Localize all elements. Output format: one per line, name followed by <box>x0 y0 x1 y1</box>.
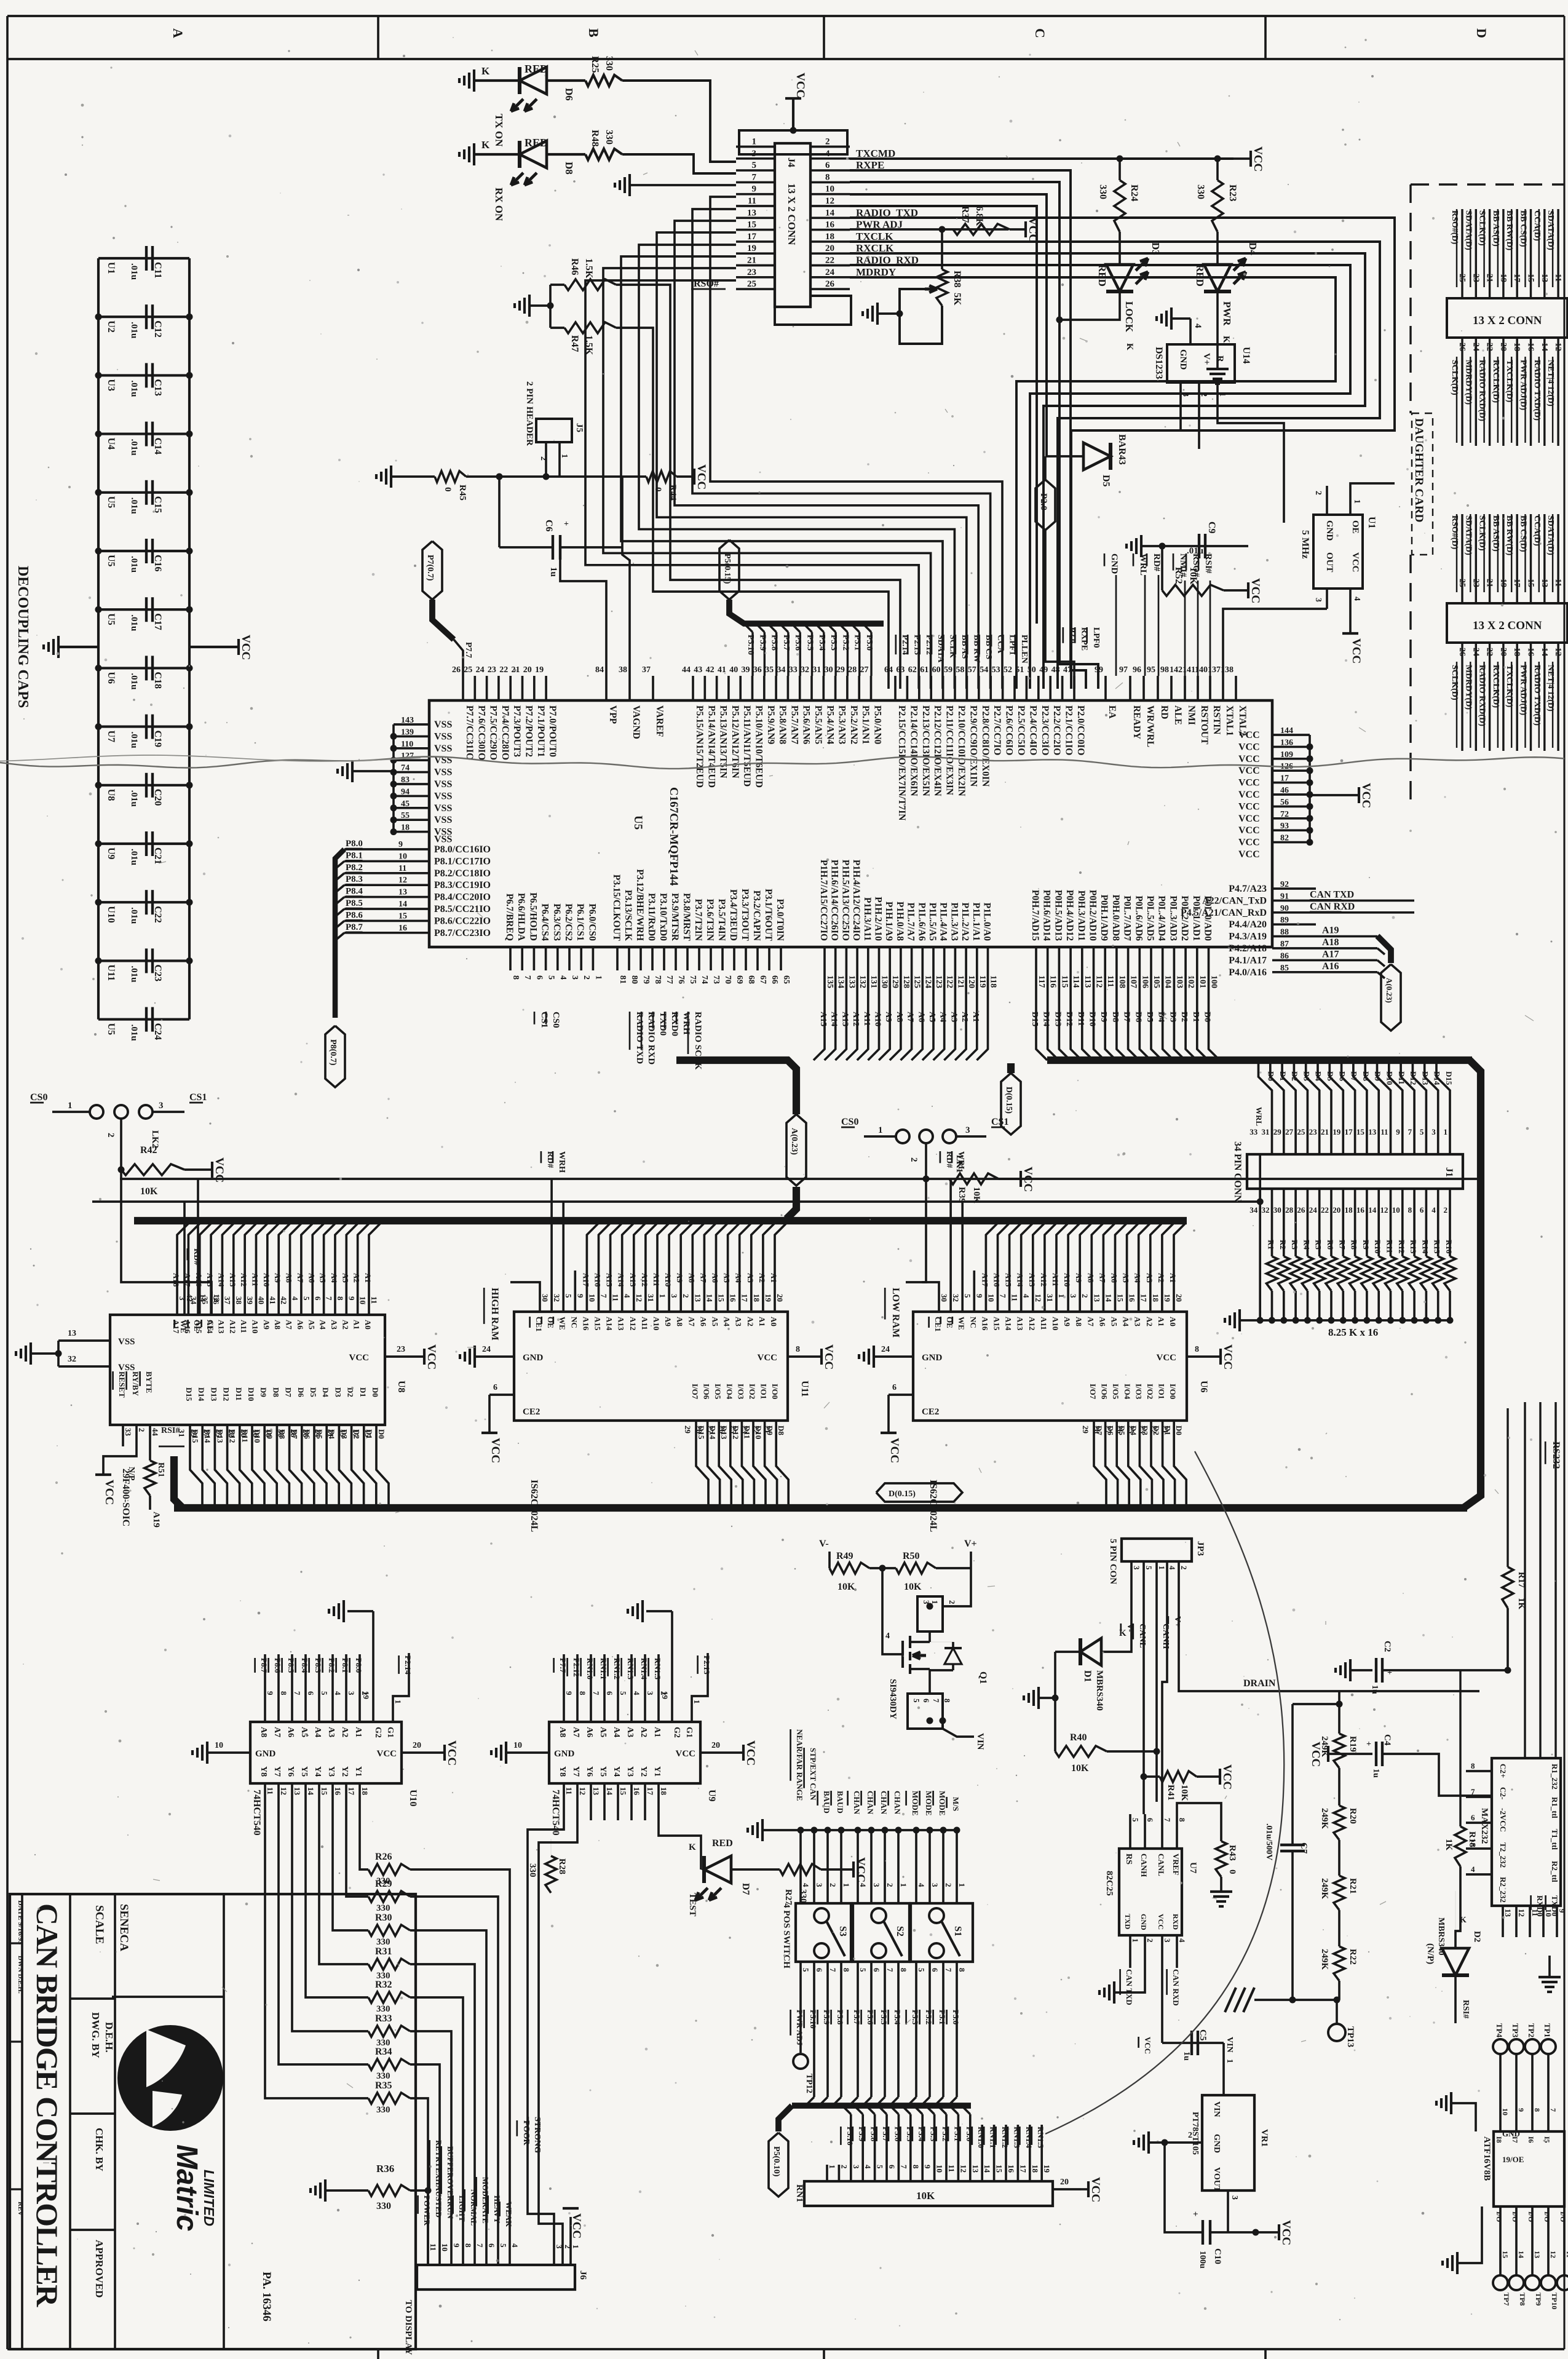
U9 output pin Y5 <box>603 1783 606 1820</box>
switch bottom pin P5.2 <box>929 1962 931 1992</box>
testpoint TP1 <box>1541 2039 1556 2054</box>
svg-text:TP2: TP2 <box>1527 2023 1536 2037</box>
svg-text:11: 11 <box>429 2243 438 2251</box>
svg-text:Q1: Q1 <box>978 1671 988 1684</box>
svg-text:A14: A14 <box>205 1320 215 1334</box>
svg-text:32: 32 <box>1262 1205 1270 1215</box>
svg-text:32: 32 <box>68 1355 76 1364</box>
U9 output pin Y8 <box>563 1783 565 1820</box>
U10 output pin Y1 <box>358 1783 361 1820</box>
svg-text:R32: R32 <box>375 1980 392 1990</box>
svg-text:1.5K: 1.5K <box>584 335 594 355</box>
svg-text:136: 136 <box>1280 738 1293 747</box>
svg-text:23: 23 <box>488 665 496 675</box>
svg-text:CHAN: CHAN <box>852 1791 861 1815</box>
svg-text:P4.0/A16: P4.0/A16 <box>1229 967 1267 978</box>
svg-text:1u: 1u <box>1371 1769 1380 1778</box>
svg-text:R8: R8 <box>1350 1240 1359 1250</box>
switch bottom pin P5.0 <box>956 1962 958 1992</box>
svg-text:R37: R37 <box>960 206 970 223</box>
svg-text:D2: D2 <box>1472 1931 1482 1942</box>
capacitor C23 <box>98 959 189 962</box>
svg-text:P8.2/CC18IO: P8.2/CC18IO <box>434 868 491 879</box>
connector J6 TO DISPLAY <box>417 2265 575 2290</box>
U9 input pin A6 <box>590 1654 592 1722</box>
svg-text:A12: A12 <box>228 1320 237 1333</box>
svg-text:.01u: .01u <box>129 439 139 456</box>
svg-text:20: 20 <box>1499 343 1508 351</box>
svg-text:D14: D14 <box>1042 1012 1051 1026</box>
svg-text:MDRDY: MDRDY <box>856 266 896 278</box>
svg-text:R29: R29 <box>375 1879 392 1889</box>
svg-text:249K: 249K <box>1320 1808 1329 1830</box>
svg-text:2: 2 <box>944 1883 953 1887</box>
svg-text:4: 4 <box>1193 323 1203 328</box>
svg-text:3: 3 <box>159 1101 164 1111</box>
svg-text:A12: A12 <box>1028 1317 1037 1330</box>
svg-text:1: 1 <box>1131 1938 1140 1943</box>
svg-text:R39: R39 <box>957 1187 967 1203</box>
svg-text:15: 15 <box>1116 1294 1125 1302</box>
wire CANL JP3 down <box>1142 1593 1145 1814</box>
JD2 pin col 21 <box>1489 514 1491 603</box>
svg-text:P5.13/AN13/T5IN: P5.13/AN13/T5IN <box>718 705 729 778</box>
svg-text:P3.9/MTSR: P3.9/MTSR <box>670 893 680 942</box>
svg-text:P8.2: P8.2 <box>327 1658 336 1673</box>
svg-text:U8: U8 <box>106 789 116 801</box>
JD1 pin col 16 <box>1530 338 1532 446</box>
wire P2.0 to CPU <box>1045 530 1074 689</box>
svg-text:108: 108 <box>1117 975 1127 988</box>
svg-text:D6: D6 <box>1133 1012 1142 1022</box>
svg-text:P5.8/AN8: P5.8/AN8 <box>777 705 788 745</box>
svg-text:C23: C23 <box>152 964 163 981</box>
wire V+ to Q1 source <box>943 1568 971 1606</box>
svg-text:5: 5 <box>1144 1566 1154 1570</box>
svg-text:.01u: .01u <box>129 732 139 748</box>
svg-text:33: 33 <box>1249 1127 1258 1136</box>
ground R38 <box>877 312 900 315</box>
svg-text:61: 61 <box>920 665 929 675</box>
svg-text:P2.8/CC8IO/EX0IN: P2.8/CC8IO/EX0IN <box>980 705 991 787</box>
U10 output pin Y6 <box>291 1783 293 1820</box>
svg-text:P2.3/CC3IO: P2.3/CC3IO <box>1040 705 1050 755</box>
power VCC R39 <box>999 1178 1021 1180</box>
svg-text:A7: A7 <box>285 1320 294 1330</box>
svg-text:22: 22 <box>1321 1205 1329 1215</box>
JD1 pin col 12 <box>1557 338 1559 446</box>
JD2 pin col 16 <box>1530 643 1532 751</box>
svg-text:18: 18 <box>1512 648 1521 656</box>
svg-text:VCC: VCC <box>489 1438 502 1463</box>
svg-text:112: 112 <box>1095 975 1104 988</box>
svg-text:BAUD: BAUD <box>822 1791 831 1814</box>
svg-text:4: 4 <box>801 1883 810 1887</box>
U6 IO pins and fan <box>1093 1421 1095 1451</box>
svg-text:10: 10 <box>935 2165 944 2173</box>
svg-text:VSS: VSS <box>434 720 452 730</box>
svg-text:18: 18 <box>1512 343 1521 351</box>
svg-text:15: 15 <box>995 2165 1004 2173</box>
svg-text:P6.6/HLDA: P6.6/HLDA <box>516 893 526 942</box>
svg-text:11: 11 <box>266 1787 275 1794</box>
svg-text:13: 13 <box>293 1787 302 1796</box>
svg-text:RADIO TXD(D): RADIO TXD(D) <box>1532 360 1542 421</box>
svg-text:1K: 1K <box>1444 1839 1454 1851</box>
svg-text:P1H.4/A12/CC24IO: P1H.4/A12/CC24IO <box>851 860 861 941</box>
svg-text:6: 6 <box>1471 1813 1475 1822</box>
svg-text:63: 63 <box>896 665 905 675</box>
svg-text:4 POS SWITCH: 4 POS SWITCH <box>782 1903 791 1968</box>
svg-text:3: 3 <box>815 1883 824 1887</box>
svg-text:GND: GND <box>1324 520 1334 541</box>
svg-text:31: 31 <box>1262 1127 1270 1136</box>
svg-text:4: 4 <box>623 1294 632 1298</box>
svg-text:26: 26 <box>1457 648 1467 656</box>
svg-text:10K: 10K <box>916 2190 935 2202</box>
svg-text:25: 25 <box>215 1429 224 1438</box>
svg-text:2: 2 <box>137 1428 146 1432</box>
svg-text:A15: A15 <box>194 1320 204 1334</box>
svg-text:10K: 10K <box>1179 1785 1189 1801</box>
svg-text:P0L.4/AD4: P0L.4/AD4 <box>1157 895 1167 941</box>
svg-text:A6: A6 <box>1110 1273 1119 1283</box>
svg-text:2: 2 <box>1444 1205 1448 1215</box>
svg-text:9: 9 <box>923 2165 932 2169</box>
svg-text:11: 11 <box>748 196 756 206</box>
svg-text:BB RW(D): BB RW(D) <box>1505 515 1514 556</box>
J4 pin 22 <box>810 264 850 267</box>
svg-text:D13: D13 <box>1053 1012 1062 1026</box>
svg-text:A1: A1 <box>1157 1317 1166 1326</box>
svg-text:25: 25 <box>1127 1425 1136 1434</box>
svg-text:GND: GND <box>255 1749 276 1759</box>
capacitor C22 <box>98 901 189 903</box>
svg-text:14: 14 <box>1368 1205 1377 1215</box>
svg-text:D14: D14 <box>197 1387 206 1402</box>
svg-text:P1L.6/A6: P1L.6/A6 <box>916 903 927 942</box>
svg-text:.01u: .01u <box>129 556 139 573</box>
svg-text:83: 83 <box>401 775 410 785</box>
RN1 wire pin 18 <box>1029 2125 1031 2181</box>
svg-text:P3.7/T2IN: P3.7/T2IN <box>693 899 703 941</box>
svg-text:P5.2: P5.2 <box>841 635 850 651</box>
svg-text:CE1: CE1 <box>933 1317 943 1332</box>
svg-text:S3: S3 <box>837 1926 848 1937</box>
J4 pin 26 <box>810 288 850 290</box>
svg-text:22: 22 <box>499 665 508 675</box>
svg-text:SCALE: SCALE <box>93 1905 106 1944</box>
svg-text:15: 15 <box>1526 579 1535 587</box>
svg-text:12: 12 <box>1034 1294 1043 1302</box>
wire VIN to VR1 <box>1222 2043 1225 2095</box>
svg-text:9: 9 <box>347 1296 356 1301</box>
power VCC TXCMD rail <box>1249 151 1252 167</box>
svg-text:330: 330 <box>604 56 614 71</box>
svg-text:26: 26 <box>825 279 835 289</box>
svg-text:RXD: RXD <box>1171 1914 1180 1930</box>
svg-text:23: 23 <box>747 268 756 277</box>
svg-text:DRAIN: DRAIN <box>1243 1678 1276 1689</box>
svg-text:A18: A18 <box>172 1273 181 1287</box>
svg-text:RADIO RXD(D): RADIO RXD(D) <box>1478 665 1487 726</box>
wire JP3 V- to D1 <box>1101 1593 1131 1652</box>
svg-text:LIMITED: LIMITED <box>201 2170 217 2226</box>
svg-text:A19: A19 <box>151 1512 161 1528</box>
svg-text:P5.3: P5.3 <box>829 635 838 651</box>
svg-text:18: 18 <box>825 232 834 242</box>
wire TXCLK <box>850 242 1380 689</box>
svg-text:6: 6 <box>306 1691 315 1695</box>
svg-text:A16: A16 <box>581 1317 590 1331</box>
svg-text:142: 142 <box>1170 665 1182 675</box>
svg-text:1: 1 <box>842 1883 851 1887</box>
svg-text:S2: S2 <box>895 1926 905 1937</box>
resistor R34 330 <box>279 1820 368 2064</box>
svg-text:C22: C22 <box>152 906 163 923</box>
svg-text:A13: A13 <box>840 1012 849 1026</box>
resistor R3 <box>1294 1189 1297 1256</box>
RN1 wire pin 10 <box>926 2106 935 2114</box>
wire U8 pin2 VCC <box>103 1446 137 1475</box>
U9 input pin A3 <box>630 1654 633 1722</box>
svg-text:A13: A13 <box>628 1273 638 1287</box>
svg-text:R24: R24 <box>1129 184 1139 202</box>
svg-text:5: 5 <box>917 1968 926 1972</box>
svg-text:P1H.0/A8: P1H.0/A8 <box>895 902 905 941</box>
IC U7 82C25 <box>1119 1849 1182 1935</box>
switch bottom pin P5.5 <box>884 1962 886 1992</box>
U9 output pin Y3 <box>630 1783 633 1820</box>
svg-text:5 MHz: 5 MHz <box>1300 530 1310 559</box>
svg-text:VCC: VCC <box>822 1344 835 1370</box>
svg-text:D2: D2 <box>1290 1071 1299 1081</box>
svg-text:94: 94 <box>401 787 410 796</box>
RN1 wire pin 1 <box>826 2165 828 2181</box>
svg-text:R20: R20 <box>1348 1808 1358 1824</box>
svg-text:R46: R46 <box>569 258 580 276</box>
svg-text:BAUD: BAUD <box>836 1791 845 1814</box>
svg-text:6: 6 <box>534 975 544 980</box>
svg-text:BB RW(D): BB RW(D) <box>1505 210 1514 251</box>
J1 pin column D1 <box>1270 1063 1284 1154</box>
svg-text:D4: D4 <box>1247 242 1259 255</box>
svg-text:P5.5/AN5: P5.5/AN5 <box>813 705 823 745</box>
svg-text:77: 77 <box>665 975 674 984</box>
ground ATF left <box>1450 2092 1452 2114</box>
svg-text:VCC: VCC <box>1221 1764 1233 1790</box>
svg-text:A8: A8 <box>895 1012 904 1022</box>
wire RADIO_RXD <box>850 265 1350 689</box>
svg-text:P8.3: P8.3 <box>346 874 363 884</box>
svg-text:K: K <box>689 1842 696 1852</box>
svg-text:A2: A2 <box>341 1320 350 1330</box>
svg-text:1: 1 <box>658 1294 667 1298</box>
svg-text:R33: R33 <box>375 2013 392 2024</box>
svg-text:8: 8 <box>1471 1761 1475 1770</box>
J4 pin 9 <box>736 193 775 196</box>
svg-text:VSS: VSS <box>434 803 452 814</box>
wire WRH horizontal <box>92 1200 1260 1203</box>
svg-text:3: 3 <box>1163 1938 1172 1943</box>
U9 output pin Y6 <box>590 1783 592 1820</box>
U5 control top pins <box>1104 676 1107 700</box>
svg-text:24: 24 <box>1471 648 1480 656</box>
svg-text:A7: A7 <box>1086 1317 1095 1326</box>
svg-text:25: 25 <box>747 279 756 289</box>
wire U7 VCC pin3 <box>1161 1963 1163 2043</box>
svg-text:P5.3/AN3: P5.3/AN3 <box>837 705 847 745</box>
svg-text:CANL: CANL <box>1157 1853 1166 1876</box>
svg-text:12: 12 <box>578 1787 587 1795</box>
MAX232 pins left <box>1466 1770 1492 1772</box>
net DRAIN wire <box>1179 1593 1479 1691</box>
svg-text:P0H.3/AD11: P0H.3/AD11 <box>1076 890 1087 941</box>
svg-text:29: 29 <box>1081 1425 1090 1434</box>
svg-text:A13: A13 <box>617 1317 626 1331</box>
U5 VPP VAGND VAREF pins <box>605 676 608 700</box>
svg-text:25: 25 <box>1457 579 1467 587</box>
wire POOR <box>528 1820 564 2265</box>
svg-text:5: 5 <box>1420 1127 1424 1136</box>
svg-text:12: 12 <box>825 196 834 206</box>
svg-text:A0: A0 <box>769 1317 778 1326</box>
svg-text:P0L.0/AD0: P0L.0/AD0 <box>1203 895 1213 941</box>
svg-text:23: 23 <box>1471 274 1480 282</box>
svg-text:P2.14: P2.14 <box>403 1655 413 1675</box>
wire PWR ADJ to R37 <box>850 228 942 231</box>
svg-text:17: 17 <box>1512 579 1521 587</box>
svg-text:100u: 100u <box>1198 2251 1207 2269</box>
svg-text:1: 1 <box>1444 1127 1448 1136</box>
svg-text:A7: A7 <box>571 1727 580 1737</box>
svg-text:12: 12 <box>398 876 407 885</box>
svg-text:VSS: VSS <box>434 791 452 801</box>
svg-text:1: 1 <box>593 975 603 980</box>
svg-text:RSO#(D): RSO#(D) <box>1450 515 1459 550</box>
svg-text:7: 7 <box>885 1968 895 1972</box>
svg-text:A3: A3 <box>949 1012 958 1022</box>
svg-text:A10: A10 <box>873 1012 882 1026</box>
J1 pin column D0 <box>1259 1063 1272 1154</box>
J4 pin 18 <box>810 240 850 243</box>
svg-text:13: 13 <box>747 208 756 218</box>
svg-text:CE1: CE1 <box>534 1317 544 1332</box>
U10 output pin Y2 <box>345 1783 347 1820</box>
wire TXCMD rail <box>850 157 1233 160</box>
svg-text:9: 9 <box>564 1691 574 1695</box>
U10 output pin Y5 <box>304 1783 307 1820</box>
svg-text:P2.13/CC13IO/EX5IN: P2.13/CC13IO/EX5IN <box>921 705 931 796</box>
svg-text:U5: U5 <box>632 815 644 830</box>
svg-text:RED: RED <box>525 63 548 75</box>
svg-text:4: 4 <box>825 149 830 159</box>
svg-text:A16: A16 <box>194 1273 204 1287</box>
svg-text:C7: C7 <box>1299 1842 1309 1854</box>
svg-text:A3: A3 <box>341 1273 350 1283</box>
svg-text:P2.10/CC10IO/EX2IN: P2.10/CC10IO/EX2IN <box>956 705 967 796</box>
svg-text:WRL: WRL <box>1254 1107 1264 1126</box>
svg-text:16: 16 <box>1526 343 1535 351</box>
svg-text:D8: D8 <box>1361 1071 1371 1081</box>
svg-text:R48: R48 <box>590 130 600 147</box>
svg-text:11: 11 <box>564 1787 574 1794</box>
svg-text:14: 14 <box>1517 2251 1526 2258</box>
LED D8 <box>474 153 520 156</box>
svg-text:116: 116 <box>1048 975 1058 988</box>
svg-text:3: 3 <box>646 1691 655 1695</box>
svg-text:P5.4/AN4: P5.4/AN4 <box>825 705 835 745</box>
svg-text:6: 6 <box>1146 1818 1155 1822</box>
svg-text:31: 31 <box>1045 1294 1055 1302</box>
svg-text:4: 4 <box>1431 1205 1436 1215</box>
svg-text:D5: D5 <box>1145 1012 1154 1022</box>
svg-text:D15: D15 <box>1444 1071 1454 1085</box>
svg-text:44: 44 <box>682 665 691 675</box>
resistor R37 6.8K <box>953 224 1010 235</box>
svg-text:CCA(D): CCA(D) <box>1532 210 1542 241</box>
wire R46 right <box>616 285 900 689</box>
svg-text:R2_232: R2_232 <box>1499 1877 1508 1903</box>
svg-text:140: 140 <box>1195 665 1208 675</box>
JD2 pin col 26 <box>1461 643 1463 751</box>
svg-text:5: 5 <box>547 975 556 980</box>
svg-text:P1L.3/A3: P1L.3/A3 <box>949 903 959 942</box>
capacitor C11 <box>98 257 189 260</box>
svg-text:24: 24 <box>1309 1205 1318 1215</box>
JP3 pin 5 <box>1142 1561 1145 1593</box>
svg-text:12: 12 <box>279 1787 288 1795</box>
svg-text:3: 3 <box>555 2245 564 2249</box>
ground for D8 <box>473 143 475 165</box>
svg-text:R21: R21 <box>1348 1878 1358 1894</box>
svg-text:D(0.15): D(0.15) <box>1004 1087 1013 1114</box>
svg-text:Y3: Y3 <box>625 1766 635 1777</box>
svg-text:36: 36 <box>212 1296 221 1305</box>
svg-text:A2: A2 <box>340 1727 349 1737</box>
svg-text:VREF: VREF <box>1171 1853 1181 1875</box>
switch bottom pin P5.6 <box>870 1962 873 1992</box>
svg-text:A16: A16 <box>183 1320 192 1334</box>
svg-text:17: 17 <box>747 232 757 242</box>
J4 pin 25 <box>736 288 775 290</box>
svg-text:9: 9 <box>975 1294 984 1298</box>
svg-text:R51: R51 <box>156 1462 165 1477</box>
svg-text:8: 8 <box>578 1691 587 1695</box>
resistor R25 330 <box>585 75 622 86</box>
svg-text:P5.1/AN1: P5.1/AN1 <box>860 705 871 744</box>
testpoint TP2 <box>1525 2039 1540 2054</box>
svg-text:2: 2 <box>909 1157 919 1162</box>
svg-text:Y6: Y6 <box>585 1766 594 1777</box>
svg-text:ALE: ALE <box>1173 705 1183 725</box>
ground VR1 pin2 <box>1149 2141 1202 2144</box>
svg-text:A14: A14 <box>605 1317 614 1331</box>
svg-text:P2.2/CC2IO: P2.2/CC2IO <box>1051 705 1062 755</box>
svg-text:D0: D0 <box>1267 1071 1276 1081</box>
svg-text:4: 4 <box>291 1296 300 1301</box>
svg-text:28: 28 <box>1093 1425 1102 1434</box>
svg-text:6: 6 <box>825 161 830 170</box>
svg-text:P8.0: P8.0 <box>354 1658 363 1673</box>
scan curve artifact <box>1045 1451 1284 2134</box>
svg-text:9: 9 <box>752 184 757 194</box>
svg-text:OUT: OUT <box>1324 552 1334 573</box>
svg-text:A11: A11 <box>1039 1317 1048 1330</box>
ground U14 pin4 <box>1170 307 1173 330</box>
svg-text:36: 36 <box>753 665 762 675</box>
svg-text:19/OE: 19/OE <box>1502 2155 1524 2164</box>
